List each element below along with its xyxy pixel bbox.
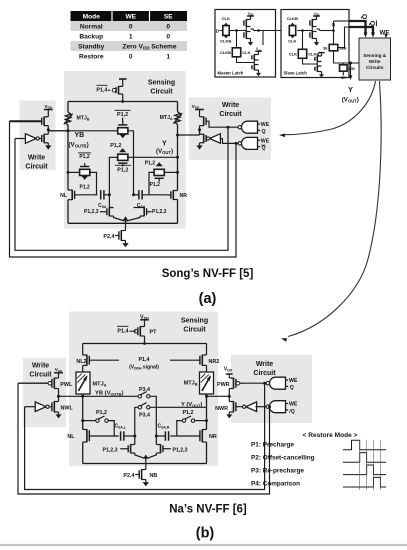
wire: NL gate to cap (a) xyxy=(78,194,97,196)
wire: latch-right drain (b) xyxy=(155,436,157,445)
nmos NWL (b) xyxy=(53,401,55,412)
wire: slave feedback drop xyxy=(302,31,304,50)
label P1,4bar (b) xyxy=(117,326,129,334)
node write-right output (a) xyxy=(198,128,201,131)
svg-text:0: 0 xyxy=(166,33,170,40)
wire: TG1s to slave inverter xyxy=(297,30,308,32)
svg-text:P1,2,3: P1,2,3 xyxy=(173,448,188,454)
svg-text:WE: WE xyxy=(125,13,136,20)
wire: YB node row (b) xyxy=(59,395,139,397)
inverter write-left (b) xyxy=(35,402,46,412)
pass gate SE (horizontal) xyxy=(329,44,338,50)
wire: TG2s to slave feedback inverter xyxy=(303,58,317,64)
svg-text:VDD: VDD xyxy=(192,104,200,110)
svg-text:Q: Q xyxy=(360,14,367,19)
wire: latch common source to tail (a) xyxy=(114,216,125,221)
svg-text:Slave Latch: Slave Latch xyxy=(284,71,308,76)
ground (master inverter) xyxy=(250,41,252,43)
switch P1,2 left (b) xyxy=(96,419,99,422)
wire: YB rail mid (a) xyxy=(67,125,69,190)
bus Q (thick) xyxy=(349,21,366,34)
wire: Y rail upper (a) xyxy=(177,102,179,112)
svg-text:NL: NL xyxy=(60,193,68,199)
label P1,4bar (a) xyxy=(96,85,107,93)
inverter write-right (b) xyxy=(246,402,257,412)
wire: MTJ_A to YB node (b) xyxy=(82,394,84,396)
waveform P1 xyxy=(343,440,386,450)
svg-text:PWR: PWR xyxy=(217,382,230,388)
svg-text:Write: Write xyxy=(369,59,381,64)
wire: NL source down (b) xyxy=(82,442,84,464)
nmos latch-left P1,2,3 (b) xyxy=(130,444,132,453)
nmos NL2 (b) xyxy=(86,355,88,366)
VDD bar (a top, P1,4 source) xyxy=(119,78,127,80)
svg-text:NL2: NL2 xyxy=(76,359,86,365)
pointer curve to circuit (a) xyxy=(285,81,376,135)
nand gate N2 (b, WE*/Q) xyxy=(270,401,286,413)
svg-text:P1,2: P1,2 xyxy=(80,185,91,191)
transmission gate TG4 (a right, Y to NR gate) xyxy=(154,162,164,182)
wire: NR2 gate stub (b) xyxy=(170,359,200,361)
transmission gate TG2s (CLK/CLKB) xyxy=(298,49,306,58)
wire: YB cross to right cap (b) xyxy=(150,396,156,436)
svg-text:Y: Y xyxy=(162,140,167,147)
svg-text:Write: Write xyxy=(222,102,239,109)
tail node arrow (b) xyxy=(143,455,148,464)
svg-text:NWL: NWL xyxy=(61,406,74,412)
ground (b left write) xyxy=(58,412,60,414)
wire: slave inverter output to Q node xyxy=(317,28,320,30)
wire: NR gate to cap (a) xyxy=(142,194,167,196)
wire: YB rail upper (a) xyxy=(67,102,69,113)
inverter U1s (CMOS pair) xyxy=(308,18,316,41)
wire: P1,4 drain xyxy=(122,94,124,102)
wire: D to inverter U1m input xyxy=(220,30,243,32)
MTJ_B box (b) xyxy=(200,372,214,394)
wire: Y rail to TG4 (a) xyxy=(164,171,177,173)
nand gate N1 (b, WE*Q) xyxy=(270,377,286,389)
wire: P1,2 left to NL gate node (b) xyxy=(108,421,114,436)
svg-text:YB (VOUTB): YB (VOUTB) xyxy=(95,390,124,396)
pmos P1,4bar (a precharge) xyxy=(108,86,123,94)
svg-text:P4: Comparison: P4: Comparison xyxy=(251,481,300,488)
transmission gate TG1s (CLKB/CLK) xyxy=(289,23,295,39)
svg-text:Q: Q xyxy=(368,21,375,26)
nmos NR2 (b) xyxy=(201,355,203,366)
pmos write-right pull-up (a) xyxy=(203,117,205,126)
wire: NAND2 out to inverter input (b) xyxy=(255,406,268,408)
slave latch box xyxy=(281,10,349,78)
label P1,2bar below TG2 (a) xyxy=(115,165,131,173)
capacitor C_SA_L (b) xyxy=(120,431,122,440)
VDD supply (master inverter) xyxy=(247,12,254,18)
svg-text:Write: Write xyxy=(32,363,49,370)
switch P3,4 lower (b) xyxy=(138,406,141,409)
wire: cap left to latch node (b) xyxy=(124,435,135,437)
svg-text:SE: SE xyxy=(164,13,173,20)
circuit (b) sensing circuit shaded panel xyxy=(69,312,218,467)
wire: Q up to output bus xyxy=(333,21,335,31)
circuit (a) left write circuit shaded panel xyxy=(20,101,56,171)
svg-text:NB: NB xyxy=(150,473,158,479)
svg-text:(b): (b) xyxy=(196,526,215,542)
VDD (a left write) xyxy=(44,104,53,113)
sensing & write circuits block xyxy=(359,38,391,80)
wire: NR source down (a) xyxy=(177,200,179,224)
svg-text:Circuit: Circuit xyxy=(253,370,276,377)
svg-text:Mode: Mode xyxy=(83,13,101,20)
junction node Q xyxy=(332,29,335,32)
svg-text:P1,2: P1,2 xyxy=(110,143,121,149)
wire WE arrow into block xyxy=(385,36,387,37)
wire: N1 output feedback (b loop 1) xyxy=(25,382,267,490)
wire: YB rail down (b) xyxy=(82,396,84,429)
svg-text:CLK: CLK xyxy=(242,50,250,55)
svg-text:WE: WE xyxy=(261,138,270,144)
wire: Y output arrow xyxy=(350,63,352,76)
wire: NR source down (b) xyxy=(206,442,208,464)
wire: bottom rail (a) xyxy=(68,222,178,224)
svg-text:NR: NR xyxy=(180,193,188,199)
svg-text:Y: Y xyxy=(348,85,353,94)
svg-text:Sensing: Sensing xyxy=(181,318,208,325)
svg-text:VDD: VDD xyxy=(55,367,63,373)
svg-text:WE: WE xyxy=(289,402,298,408)
transmission gate TG2m (CLKB/CLK) xyxy=(232,48,240,57)
svg-text:P3,4: P3,4 xyxy=(139,413,150,419)
circuit (a) right write circuit shaded panel xyxy=(189,98,271,161)
wire: NAND1 out to PWR gate (b) xyxy=(242,382,268,384)
wire: SE pass gate to VOUT rail xyxy=(334,51,360,63)
pointer curve to circuit (b) xyxy=(288,81,381,337)
mode table xyxy=(71,11,188,61)
wire: latch-left drain (b) xyxy=(134,436,136,445)
svg-text:1: 1 xyxy=(129,33,133,40)
junction node master output xyxy=(257,29,260,32)
nmos NL (a) xyxy=(71,190,73,200)
svg-text:1: 1 xyxy=(166,53,170,60)
ground (slave feedback inverter) xyxy=(321,73,323,74)
transmission gate TG1 (a, on YB) xyxy=(118,118,128,139)
capacitor C_SA_R (b) xyxy=(164,431,166,440)
transmission gate TG2 (a, on Y) xyxy=(118,148,128,166)
svg-text:Sensing &: Sensing & xyxy=(363,53,387,58)
wire: latch common source (b) xyxy=(135,453,145,458)
wire: NL source down (a) xyxy=(67,200,69,224)
wire: write-right output to Y (a) xyxy=(178,134,200,136)
feedback inverter U2m (CMOS pair) xyxy=(252,53,259,72)
wire: left branch down to NL2 (b) xyxy=(82,344,84,356)
wire: cap right to latch node (b) xyxy=(156,435,165,437)
ground (a tail) xyxy=(125,241,127,244)
svg-text:CLK: CLK xyxy=(288,39,296,44)
svg-text:Backup: Backup xyxy=(79,33,103,40)
wire: write-left output to YB (a) xyxy=(48,130,68,132)
waveform P2 xyxy=(343,453,386,463)
wire: N1 output feedback (a, inner loop) xyxy=(15,126,230,251)
inverter U1m (CMOS pair) xyxy=(242,18,250,41)
svg-text:Restore: Restore xyxy=(79,53,104,60)
wire: NL2 gate stub (b) xyxy=(89,359,119,361)
bottom page rule xyxy=(0,544,407,546)
circuit (b) right write circuit shaded panel xyxy=(231,355,312,423)
svg-text:NWR: NWR xyxy=(215,406,228,412)
pmos PWL (b) xyxy=(53,378,55,389)
wire: TG2m to feedback inverter U2m xyxy=(237,57,254,63)
svg-text:Standby: Standby xyxy=(78,43,104,50)
wire: N2 output feedback (a, outer loop) xyxy=(10,121,238,257)
wire: latch drains (a) xyxy=(109,207,113,209)
svg-text:P3: Re-precharge: P3: Re-precharge xyxy=(251,468,304,475)
ground (a left write) xyxy=(47,143,49,146)
wire: inverter bubble to NWR gate (b) xyxy=(236,406,242,408)
nmos NL (b) xyxy=(86,429,88,442)
svg-text:P2: Offset-cancelling: P2: Offset-cancelling xyxy=(251,455,315,462)
svg-text:Q: Q xyxy=(262,129,266,135)
MTJ_B (a left) xyxy=(65,112,70,125)
svg-text:P1,4: P1,4 xyxy=(96,87,107,93)
ground (a right write) xyxy=(199,143,201,146)
nmos write-left pull-down (a) xyxy=(43,134,45,143)
transmission gate TG1m (CLK/CLKB) xyxy=(223,23,229,39)
bus Qbar (thick) xyxy=(349,27,373,34)
svg-text:Zero VDD Scheme: Zero VDD Scheme xyxy=(122,43,176,50)
svg-text:P1,2: P1,2 xyxy=(79,154,90,160)
svg-text:Write: Write xyxy=(28,155,45,162)
ground (b tail) xyxy=(145,480,147,483)
wire: cap to latch node right (a) xyxy=(134,194,139,196)
wire: Y rail down (b) xyxy=(206,407,208,429)
wire: MTJ_B to Y node (b) xyxy=(206,394,208,396)
junction node Y out xyxy=(349,62,352,65)
svg-text:Q: Q xyxy=(262,146,266,152)
svg-text:NR: NR xyxy=(209,434,217,440)
nmos P2,4 tail (a) xyxy=(120,230,122,241)
wire: master inverter output to slave xyxy=(251,28,254,30)
svg-text:SE: SE xyxy=(323,46,328,50)
svg-text:WE: WE xyxy=(289,378,298,384)
svg-text:CLKB: CLKB xyxy=(287,16,298,21)
svg-text:NL: NL xyxy=(67,434,75,440)
wire: feedback drop master xyxy=(236,31,238,48)
label P1,4 VDDH signal (b) xyxy=(129,357,159,371)
VDD (b right write) xyxy=(224,367,233,377)
label P1,2bar above TG1 (a) xyxy=(115,110,131,118)
svg-text:Q: Q xyxy=(290,385,294,391)
svg-text:SEB: SEB xyxy=(348,67,355,71)
svg-text:Normal: Normal xyxy=(80,23,103,30)
wire: NR gate row to cap (b) xyxy=(170,435,200,437)
switch P1,2 right (b) xyxy=(182,419,185,422)
wire: TG2 left side down (a) xyxy=(109,157,117,207)
pmos write-left pull-up (a) xyxy=(43,117,45,126)
svg-text:Circuit: Circuit xyxy=(25,164,48,171)
svg-text:Circuit: Circuit xyxy=(219,111,242,118)
waveform phase grid lines xyxy=(360,440,381,490)
svg-text:0: 0 xyxy=(129,23,133,30)
wire: feedback to PWL gate (b) xyxy=(18,382,48,384)
svg-text:P1,2,3: P1,2,3 xyxy=(152,209,167,215)
svg-text:NR2: NR2 xyxy=(209,359,220,365)
svg-text:P1,2: P1,2 xyxy=(150,182,161,188)
svg-text:P1,2,3: P1,2,3 xyxy=(84,209,99,215)
transmission gate TG3 (a left, YB to NL gate) xyxy=(80,163,90,180)
svg-text:VDD: VDD xyxy=(45,104,53,110)
svg-text:Circuits: Circuits xyxy=(366,65,384,70)
pmos PT (b) xyxy=(130,323,145,337)
nand gate N2 (a, WE*Qbar) xyxy=(242,137,258,149)
MTJ_A (a right) xyxy=(175,112,180,125)
node write-right output (b) xyxy=(228,395,231,398)
master latch box xyxy=(215,10,276,78)
ground (slave inverter) xyxy=(316,41,318,43)
inverter write-right (a) xyxy=(210,134,221,144)
svg-text:SEB: SEB xyxy=(340,46,348,50)
VDD supply (slave feedback inverter) xyxy=(318,52,324,54)
wire: inverter input (b left) xyxy=(25,406,35,408)
circuit (b) left write circuit shaded panel xyxy=(23,358,66,427)
svg-text:(a): (a) xyxy=(199,291,217,307)
wire: precharge rail (a top) xyxy=(68,101,178,103)
wire: P1,2 right to NR gate node (b) xyxy=(177,421,183,436)
wire: Y to P1,2 right (b) xyxy=(195,420,207,422)
VDD (b top) xyxy=(140,314,149,323)
wire: feedback inverter input tap xyxy=(262,31,264,46)
svg-text:P1,2: P1,2 xyxy=(145,160,156,166)
wire: WE feedback to pull-up gate (a, thick) xyxy=(10,120,42,122)
svg-text:CLKB: CLKB xyxy=(220,39,231,44)
nmos latch-right P1,2,3 (a) xyxy=(143,207,145,216)
slave feedback inverter U2s (CMOS pair) xyxy=(315,54,322,73)
nmos NB tail (b) xyxy=(141,469,143,480)
wire: N2 output feedback (b loop 2) xyxy=(18,383,271,494)
svg-text:P1,2: P1,2 xyxy=(117,168,128,174)
svg-text:P1,4: P1,4 xyxy=(138,357,149,363)
wire: YB to TG column (a) xyxy=(49,130,118,132)
label Qbar (N2 input a) xyxy=(261,145,265,151)
wire: cap to latch node left (a) xyxy=(104,194,109,196)
wire: Q down to SE pass gate xyxy=(333,31,335,45)
svg-text:P1,2: P1,2 xyxy=(96,410,107,416)
circuit (a) sensing circuit shaded panel xyxy=(64,71,186,229)
svg-text:Sensing: Sensing xyxy=(148,80,175,87)
node write-left output (b) xyxy=(57,395,60,398)
waveform P3 xyxy=(343,465,386,475)
svg-text:P1,2,3: P1,2,3 xyxy=(103,448,118,454)
switch P3,4 upper (b) xyxy=(138,395,141,398)
svg-text:Circuit: Circuit xyxy=(29,372,52,379)
svg-text:Circuit: Circuit xyxy=(150,89,173,96)
wire: Y node row (b) xyxy=(150,406,207,408)
svg-text:WE: WE xyxy=(380,30,390,37)
nmos NR (a) xyxy=(172,190,174,200)
svg-text:Circuit: Circuit xyxy=(183,327,206,334)
svg-text:PWL: PWL xyxy=(60,382,73,388)
wire: precharge rail (b) xyxy=(83,343,207,345)
wire: YB to P1,2 left (b) xyxy=(83,420,96,422)
svg-text:/Q: /Q xyxy=(289,409,294,415)
svg-text:(VDDH signal): (VDDH signal) xyxy=(129,365,159,371)
svg-text:P1: Precharge: P1: Precharge xyxy=(251,442,294,449)
wire: NL gate row to cap (b) xyxy=(89,435,119,437)
wire: NAND1 out to pull-up gate (a) xyxy=(206,121,240,127)
wire: inverter bubble to NWL gate (b) xyxy=(50,406,52,408)
svg-text:< Restore Mode >: < Restore Mode > xyxy=(303,432,358,439)
node YB junction (a) xyxy=(67,129,70,132)
VDD supply (master feedback inverter) xyxy=(255,47,261,52)
nand gate N1 (a, WE*Q) xyxy=(242,121,258,133)
svg-text:Master Latch: Master Latch xyxy=(218,71,244,76)
wire: right branch down to NR2 (b) xyxy=(206,344,208,356)
svg-text:D: D xyxy=(216,28,219,33)
svg-text:P1,2: P1,2 xyxy=(117,112,128,118)
wire: Qbar tap to output bus xyxy=(338,27,349,48)
wire: NAND2 out to inverter input (a) xyxy=(220,138,222,140)
label P1,2bar above left TG3 (a) xyxy=(78,153,91,160)
VDD supply (slave inverter) xyxy=(313,12,320,18)
wire: Y cross to left cap (b) xyxy=(135,407,138,436)
svg-text:PT: PT xyxy=(150,330,158,336)
nmos latch-right P1,2,3 (b) xyxy=(160,444,162,453)
svg-text:P1,2: P1,2 xyxy=(182,410,193,416)
wire: NL2 source to MTJ_A (b) xyxy=(82,365,84,372)
wire: bottom rail (b) xyxy=(83,463,207,465)
tail node arrow (a) xyxy=(123,216,128,223)
svg-text:P1,4: P1,4 xyxy=(117,329,128,335)
nmos latch-left P1,2,3 (a) xyxy=(100,207,114,216)
wire: inverter input (a left) xyxy=(15,138,25,140)
svg-text:Song’s NV-FF [5]: Song’s NV-FF [5] xyxy=(162,268,254,280)
svg-text:CLKB: CLKB xyxy=(220,50,231,55)
node write-left output (a) xyxy=(47,128,50,131)
ground (master feedback inverter) xyxy=(258,72,260,73)
wire: PT drain to rail (b) xyxy=(144,336,146,344)
svg-text:0: 0 xyxy=(129,53,133,60)
svg-text:WE: WE xyxy=(261,122,270,128)
wire: TG1 right side down (a) xyxy=(128,131,134,195)
svg-text:Na’s NV-FF [6]: Na’s NV-FF [6] xyxy=(169,504,247,516)
capacitor C_SA right (a) xyxy=(138,190,140,199)
svg-text:YB: YB xyxy=(75,132,85,139)
nmos write-right pull-down (a) xyxy=(203,134,205,143)
pass gate SE2 (vertical, to sensing) xyxy=(340,63,356,80)
VDD (a right write) xyxy=(192,104,204,113)
svg-text:CLK: CLK xyxy=(289,52,297,57)
pmos PWR (b) xyxy=(233,378,235,389)
ground (b right write) xyxy=(228,412,230,414)
capacitor C_SA left (a) xyxy=(100,190,102,199)
VDD (b left write) xyxy=(54,367,63,375)
MTJ_A box (b) xyxy=(76,372,90,394)
wire: TG4 to NR gate node (a) xyxy=(149,172,154,194)
svg-text:SE: SE xyxy=(341,76,346,80)
wire: Y rail mid (a) xyxy=(177,125,179,191)
wire: NR2 source to MTJ_B (b) xyxy=(206,365,208,372)
wire: Y node to TG2 (a) xyxy=(128,156,177,158)
svg-text:0: 0 xyxy=(166,23,170,30)
wire: YB to TG3 (a) xyxy=(68,171,80,173)
wire: TG3 to NL gate node (a) xyxy=(90,172,97,194)
nmos NR (b) xyxy=(201,429,203,442)
svg-text:Write: Write xyxy=(256,361,273,368)
wire: write-right output to Y (b) xyxy=(207,395,230,397)
svg-text:CLK: CLK xyxy=(222,16,230,21)
svg-text:P2,4: P2,4 xyxy=(123,473,134,479)
svg-text:P2,4: P2,4 xyxy=(103,234,114,240)
waveform P4 xyxy=(343,477,386,487)
wire: inverter bubble to nmos gate (a left) xyxy=(39,138,41,140)
nmos NWR (b) xyxy=(233,401,235,412)
